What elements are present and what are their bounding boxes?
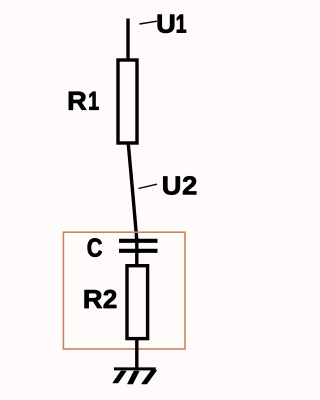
- resistor R2 value label: [85, 290, 117, 308]
- wire: from R2 to ground: [135, 338, 138, 369]
- resistor R1: [118, 60, 137, 143]
- capacitor C top plate: [119, 239, 158, 243]
- ground bar: [114, 367, 156, 370]
- wire: through capacitor down to R2: [135, 238, 138, 266]
- capacitor C bottom plate: [119, 249, 158, 253]
- resistor R1 value label: [69, 92, 99, 110]
- wire: slanted segment from R1 to capacitor: [128, 143, 137, 240]
- wire: top stub from node U1 to R1: [126, 19, 129, 61]
- resistor R2: [127, 266, 148, 339]
- node U1 label: [158, 15, 186, 33]
- node U2 leader tick: [139, 184, 158, 188]
- capacitor C label: [88, 238, 102, 256]
- node U2 label: [163, 176, 196, 194]
- highlight box around C and R2: [63, 232, 185, 349]
- ground hatch stroke 3: [142, 370, 157, 384]
- ground hatch stroke 1: [113, 371, 126, 383]
- node U1 leader tick: [140, 21, 158, 24]
- ground hatch stroke 2: [128, 371, 139, 384]
